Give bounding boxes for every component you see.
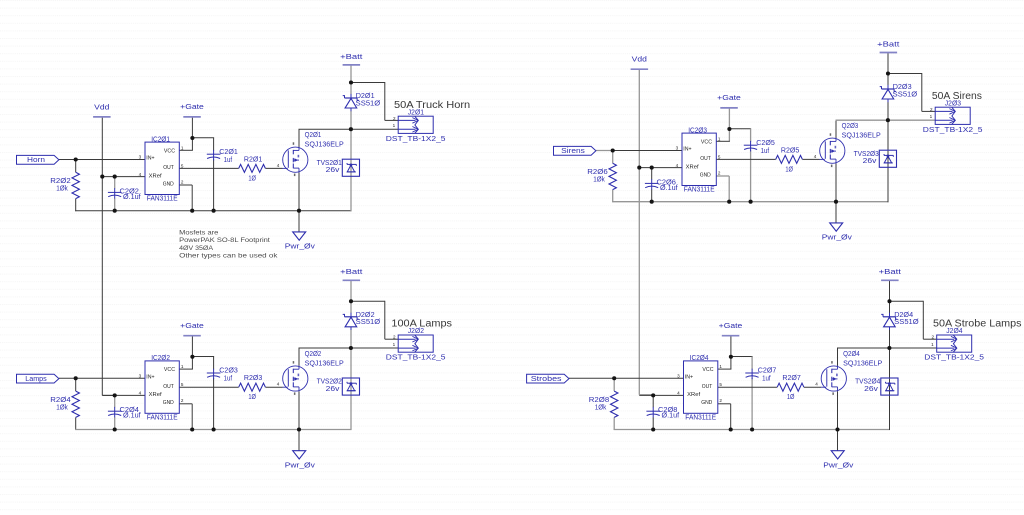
svg-text:+Batt: +Batt <box>879 267 902 276</box>
svg-text:+Gate: +Gate <box>180 102 204 111</box>
svg-text:SQJ136ELP: SQJ136ELP <box>842 131 881 140</box>
svg-text:Mosfets are: Mosfets are <box>179 230 219 237</box>
svg-text:4: 4 <box>676 163 679 168</box>
svg-text:2: 2 <box>181 398 184 403</box>
svg-text:1uf: 1uf <box>224 374 233 383</box>
svg-text:+Batt: +Batt <box>877 39 900 48</box>
svg-text:26v: 26v <box>326 165 340 174</box>
svg-text:FAN3111E: FAN3111E <box>685 412 716 421</box>
svg-text:1: 1 <box>718 136 721 141</box>
svg-text:2: 2 <box>393 335 396 340</box>
svg-text:1Øk: 1Øk <box>56 402 68 411</box>
svg-text:GND: GND <box>163 181 174 187</box>
svg-text:2: 2 <box>932 335 935 340</box>
svg-text:OUT: OUT <box>163 165 174 171</box>
svg-text:IC2Ø1: IC2Ø1 <box>151 134 170 143</box>
svg-text:XRef: XRef <box>687 392 701 398</box>
svg-text:DST_TB-1X2_5: DST_TB-1X2_5 <box>924 353 984 362</box>
svg-text:XRef: XRef <box>149 392 163 398</box>
svg-text:R2Ø5: R2Ø5 <box>781 145 799 154</box>
svg-text:PowerPAK SO-8L Footprint: PowerPAK SO-8L Footprint <box>179 237 270 244</box>
svg-text:4ØV 35ØA: 4ØV 35ØA <box>179 245 213 252</box>
svg-text:DST_TB-1X2_5: DST_TB-1X2_5 <box>386 134 446 143</box>
svg-text:4: 4 <box>814 154 817 159</box>
svg-text:VCC: VCC <box>701 139 713 145</box>
svg-text:1Øk: 1Øk <box>56 184 68 193</box>
svg-text:50A Strobe Lamps: 50A Strobe Lamps <box>933 319 1022 330</box>
svg-text:Ø.1uf: Ø.1uf <box>660 183 678 192</box>
svg-text:VCC: VCC <box>164 148 176 154</box>
svg-text:+Gate: +Gate <box>180 321 204 330</box>
svg-text:5: 5 <box>181 382 184 387</box>
svg-text:2: 2 <box>719 398 722 403</box>
svg-text:4: 4 <box>277 382 280 387</box>
svg-text:FAN3111E: FAN3111E <box>147 194 178 203</box>
svg-text:Pwr_Øv: Pwr_Øv <box>823 461 853 470</box>
svg-text:4: 4 <box>677 391 680 396</box>
svg-text:1Ø: 1Ø <box>248 173 256 182</box>
svg-text:1Ø: 1Ø <box>787 392 795 401</box>
svg-text:SS51Ø: SS51Ø <box>894 317 919 326</box>
svg-text:XRef: XRef <box>686 164 700 170</box>
svg-text:IN+: IN+ <box>146 375 154 381</box>
svg-text:DST_TB-1X2_5: DST_TB-1X2_5 <box>923 125 983 134</box>
svg-text:1: 1 <box>181 145 184 150</box>
svg-text:1Øk: 1Øk <box>595 402 607 411</box>
svg-text:1Ø: 1Ø <box>248 392 256 401</box>
svg-text:26v: 26v <box>863 156 877 165</box>
svg-text:5: 5 <box>719 382 722 387</box>
svg-text:IN+: IN+ <box>683 147 691 153</box>
svg-text:50A Sirens: 50A Sirens <box>932 91 982 102</box>
svg-text:3: 3 <box>139 373 142 378</box>
svg-text:4: 4 <box>277 163 280 168</box>
svg-text:GND: GND <box>701 400 712 406</box>
svg-text:1: 1 <box>719 364 722 369</box>
svg-text:Pwr_Øv: Pwr_Øv <box>285 242 315 251</box>
svg-text:GND: GND <box>700 172 711 178</box>
svg-text:Q2Ø1: Q2Ø1 <box>305 130 322 139</box>
svg-text:1: 1 <box>393 342 396 347</box>
svg-text:OUT: OUT <box>163 384 174 390</box>
svg-text:SS51Ø: SS51Ø <box>356 98 381 107</box>
svg-text:1uf: 1uf <box>224 155 233 164</box>
svg-text:Other types can be used ok: Other types can be used ok <box>179 253 278 260</box>
svg-text:Sirens: Sirens <box>561 148 585 155</box>
svg-text:50A Truck Horn: 50A Truck Horn <box>394 100 470 111</box>
svg-text:SS51Ø: SS51Ø <box>356 317 381 326</box>
svg-text:2: 2 <box>393 116 396 121</box>
svg-text:4: 4 <box>139 391 142 396</box>
svg-text:26v: 26v <box>326 384 340 393</box>
svg-text:5: 5 <box>718 154 721 159</box>
svg-text:5: 5 <box>181 163 184 168</box>
svg-text:100A Lamps: 100A Lamps <box>391 319 452 330</box>
svg-text:SS51Ø: SS51Ø <box>893 89 918 98</box>
svg-text:Q2Ø2: Q2Ø2 <box>305 349 322 358</box>
svg-text:+Gate: +Gate <box>717 93 741 102</box>
svg-text:Vdd: Vdd <box>94 102 109 111</box>
svg-text:+Batt: +Batt <box>340 267 363 276</box>
svg-text:4: 4 <box>139 172 142 177</box>
svg-text:3: 3 <box>139 155 142 160</box>
svg-text:2: 2 <box>930 107 933 112</box>
svg-text:DST_TB-1X2_5: DST_TB-1X2_5 <box>386 353 446 362</box>
svg-text:Pwr_Øv: Pwr_Øv <box>822 233 852 242</box>
svg-text:IN+: IN+ <box>146 156 154 162</box>
svg-text:R2Ø1: R2Ø1 <box>244 154 262 163</box>
svg-text:IC2Ø2: IC2Ø2 <box>151 353 170 362</box>
svg-text:1: 1 <box>393 123 396 128</box>
svg-text:Horn: Horn <box>27 157 45 164</box>
svg-text:R2Ø7: R2Ø7 <box>782 373 800 382</box>
svg-text:Q2Ø3: Q2Ø3 <box>842 121 859 130</box>
svg-text:Pwr_Øv: Pwr_Øv <box>285 461 315 470</box>
svg-text:Lamps: Lamps <box>25 376 47 383</box>
svg-text:Strobes: Strobes <box>531 376 562 383</box>
svg-text:3: 3 <box>677 373 680 378</box>
svg-text:XRef: XRef <box>149 173 163 179</box>
svg-text:VCC: VCC <box>702 367 714 373</box>
svg-text:1uf: 1uf <box>762 374 771 383</box>
svg-text:OUT: OUT <box>700 156 711 162</box>
svg-text:+Batt: +Batt <box>340 52 363 61</box>
svg-text:1: 1 <box>930 114 933 119</box>
svg-text:Vdd: Vdd <box>632 55 647 64</box>
svg-text:FAN3111E: FAN3111E <box>147 412 178 421</box>
svg-text:VCC: VCC <box>164 367 176 373</box>
svg-text:IC2Ø4: IC2Ø4 <box>690 353 709 362</box>
svg-text:26v: 26v <box>864 384 878 393</box>
svg-text:1uf: 1uf <box>761 146 770 155</box>
svg-text:Ø.1uf: Ø.1uf <box>123 192 141 201</box>
svg-text:Ø.1uf: Ø.1uf <box>123 411 141 420</box>
svg-text:2: 2 <box>718 170 721 175</box>
svg-text:IN+: IN+ <box>685 375 693 381</box>
svg-text:SQJ136ELP: SQJ136ELP <box>305 140 344 149</box>
svg-text:GND: GND <box>163 400 174 406</box>
svg-text:OUT: OUT <box>702 384 713 390</box>
svg-text:FAN3111E: FAN3111E <box>684 185 715 194</box>
svg-text:SQJ136ELP: SQJ136ELP <box>305 358 344 367</box>
svg-text:1: 1 <box>181 364 184 369</box>
svg-text:Ø.1uf: Ø.1uf <box>662 411 680 420</box>
svg-text:4: 4 <box>815 382 818 387</box>
svg-text:IC2Ø3: IC2Ø3 <box>688 125 707 134</box>
svg-text:2: 2 <box>181 179 184 184</box>
svg-text:Q2Ø4: Q2Ø4 <box>843 349 860 358</box>
svg-text:1Ø: 1Ø <box>785 164 793 173</box>
svg-text:1: 1 <box>931 342 934 347</box>
svg-text:SQJ136ELP: SQJ136ELP <box>843 358 882 367</box>
svg-text:+Gate: +Gate <box>719 321 743 330</box>
svg-text:3: 3 <box>676 146 679 151</box>
svg-text:R2Ø3: R2Ø3 <box>244 373 262 382</box>
svg-text:1Øk: 1Øk <box>593 175 605 184</box>
